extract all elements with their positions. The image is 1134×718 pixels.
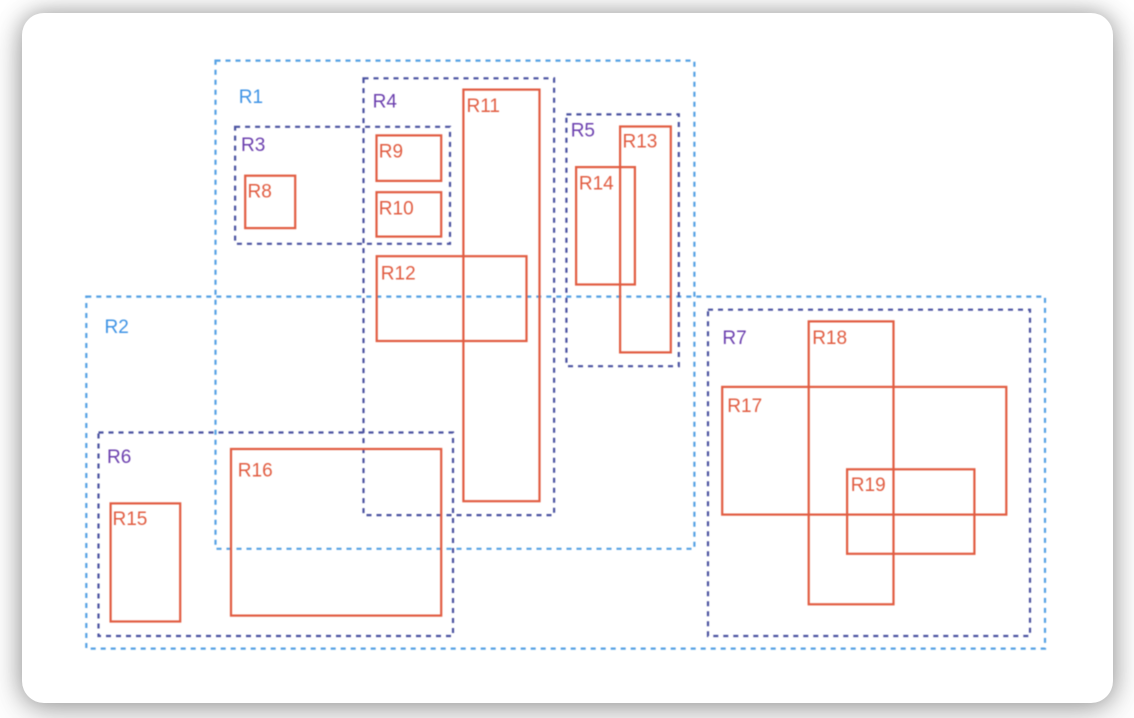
rectangle R6 (navy dashed): [99, 433, 454, 637]
svg-text:R13: R13: [623, 132, 658, 153]
svg-text:R2: R2: [105, 317, 129, 338]
svg-text:R11: R11: [467, 96, 500, 117]
svg-text:R19: R19: [851, 475, 886, 496]
rectangle R12 (orange): [377, 256, 527, 341]
rectangle R19 (orange): [847, 469, 974, 554]
svg-text:R5: R5: [571, 121, 595, 142]
svg-text:R17: R17: [727, 396, 762, 417]
rectangle R4 (navy dashed): [364, 78, 555, 515]
rectangle R14 (orange): [576, 167, 635, 284]
rectangle R17 (orange): [722, 387, 1006, 515]
svg-text:R3: R3: [241, 135, 265, 156]
rectangle R7 (navy dashed): [708, 310, 1030, 636]
svg-text:R7: R7: [722, 328, 746, 349]
svg-text:R6: R6: [107, 447, 131, 468]
rectangle R13 (orange): [620, 127, 671, 353]
rectangle R2 (blue dashed): [86, 297, 1045, 649]
svg-text:R4: R4: [373, 91, 398, 112]
rectangle R1 (blue dashed): [216, 61, 695, 549]
rectangle R11 (orange): [463, 90, 539, 502]
rectangle R18 (orange): [809, 321, 894, 604]
svg-text:R9: R9: [379, 142, 403, 163]
svg-text:R12: R12: [381, 264, 416, 285]
svg-text:R16: R16: [238, 460, 273, 481]
rectangle R9 (orange): [377, 135, 442, 181]
svg-text:R8: R8: [248, 182, 272, 203]
rectangle R15 (orange): [111, 503, 181, 621]
rectangle R10 (orange): [377, 192, 442, 236]
rectangle R3 (navy dashed): [235, 127, 450, 244]
svg-text:R18: R18: [812, 328, 847, 349]
svg-text:R10: R10: [379, 199, 414, 220]
svg-text:R14: R14: [579, 173, 614, 194]
svg-text:R1: R1: [239, 87, 263, 108]
rectangle R5 (navy dashed): [566, 114, 678, 366]
rectangle R16 (orange): [231, 449, 441, 616]
rectangle R8 (orange): [245, 176, 295, 228]
svg-text:R15: R15: [113, 509, 148, 530]
